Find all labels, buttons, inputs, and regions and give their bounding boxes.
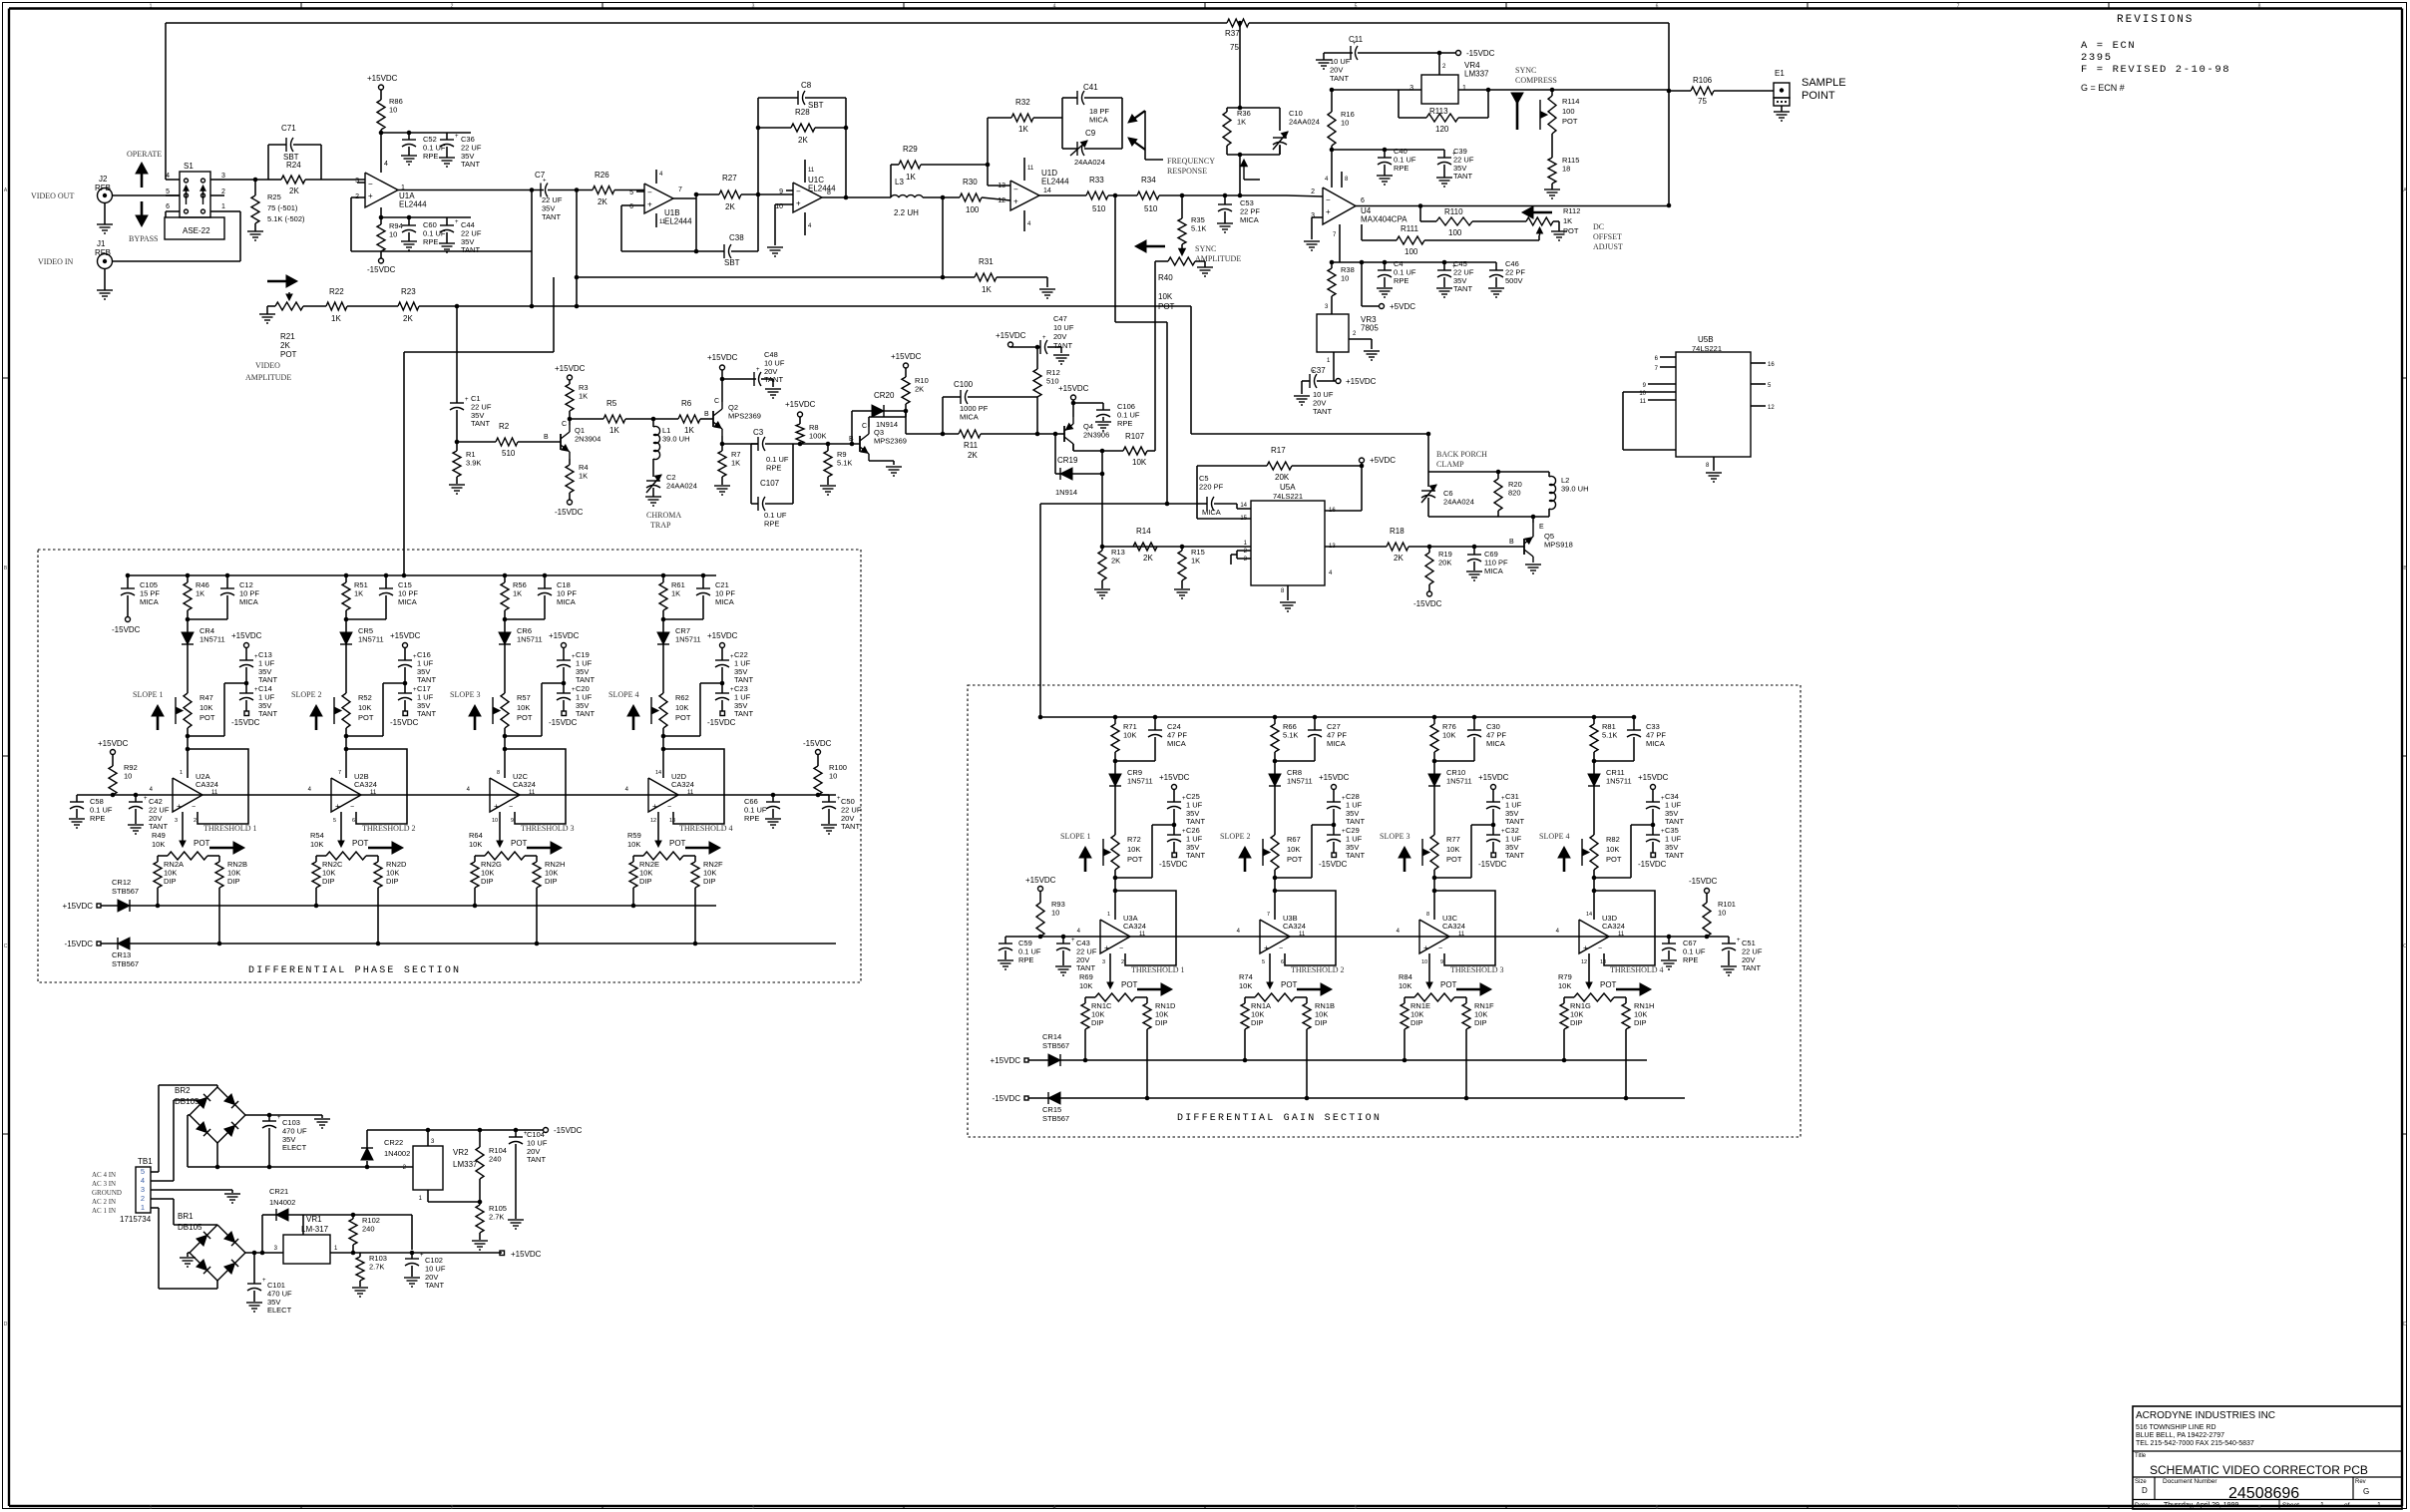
svg-text:100: 100 [1405, 247, 1418, 256]
pot R112 DC OFFSET ADJUST [1526, 217, 1553, 225]
svg-text:+15VDC: +15VDC [1025, 876, 1056, 885]
resistor R15 [1181, 547, 1183, 551]
arrow [1563, 849, 1566, 872]
wire [1433, 870, 1435, 878]
svg-text:DIP: DIP [1251, 1018, 1264, 1027]
svg-text:+15VDC: +15VDC [1478, 773, 1509, 782]
svg-text:2K: 2K [403, 314, 413, 323]
capacitor C5 [1197, 503, 1207, 505]
svg-text:1N5711: 1N5711 [1127, 776, 1153, 785]
svg-text:-15VDC: -15VDC [555, 508, 584, 517]
wire [1713, 457, 1715, 471]
svg-text:-15VDC: -15VDC [993, 1094, 1021, 1103]
svg-text:R106: R106 [1693, 76, 1713, 85]
svg-text:-15VDC: -15VDC [554, 1126, 583, 1135]
svg-text:TANT: TANT [417, 709, 436, 718]
svg-text:2: 2 [451, 1505, 454, 1511]
wire [404, 351, 554, 353]
ground [259, 313, 275, 315]
wire [576, 190, 578, 307]
svg-text:6: 6 [352, 818, 355, 824]
wire [187, 728, 189, 736]
svg-text:7: 7 [1267, 912, 1270, 918]
svg-text:D: D [2142, 1486, 2148, 1495]
svg-text:C11: C11 [1349, 35, 1364, 44]
svg-text:14: 14 [1240, 503, 1247, 509]
svg-text:+: + [262, 1278, 266, 1284]
resistor R81 [1593, 717, 1595, 724]
wire [151, 1207, 159, 1209]
svg-text:POT: POT [1562, 117, 1578, 126]
svg-text:C47: C47 [1053, 314, 1067, 323]
capacitor C42 [134, 793, 139, 798]
capacitor C31 [1492, 789, 1494, 802]
op-amp U2A [173, 778, 202, 812]
svg-text:5: 5 [629, 189, 633, 196]
svg-text:+: + [652, 802, 657, 811]
capacitor C28 [1333, 789, 1335, 802]
wire [1072, 473, 1102, 475]
svg-text:R62: R62 [675, 693, 689, 702]
capacitor C32 [1491, 823, 1496, 828]
svg-text:CR14: CR14 [1042, 1032, 1061, 1041]
capacitor C101 [253, 1253, 255, 1284]
wire [1114, 195, 1116, 322]
svg-text:R22: R22 [329, 287, 344, 296]
ground [1039, 288, 1055, 290]
wire [130, 943, 836, 945]
wire [1428, 471, 1549, 473]
svg-text:STB567: STB567 [112, 959, 139, 968]
-15VDC terminal [562, 711, 567, 716]
svg-text:Size: Size [2135, 1479, 2147, 1485]
transistor Q3 [859, 436, 861, 452]
svg-text:TANT: TANT [734, 709, 753, 718]
-15VDC terminal [1705, 889, 1710, 894]
svg-text:R47: R47 [200, 693, 213, 702]
ground [104, 269, 106, 291]
svg-text:R27: R27 [722, 174, 737, 183]
svg-text:R69: R69 [1079, 972, 1093, 981]
capacitor C69 [1473, 547, 1475, 555]
svg-text:4: 4 [1053, 4, 1056, 10]
wire [1159, 194, 1287, 196]
svg-text:1N4002: 1N4002 [384, 1149, 410, 1158]
svg-text:POT: POT [1121, 980, 1138, 989]
diode CR15 [1028, 1097, 1048, 1099]
svg-text:D: D [2403, 1322, 2407, 1327]
svg-text:DC: DC [1593, 222, 1604, 231]
arrow [1516, 102, 1519, 130]
svg-text:TANT: TANT [1665, 851, 1684, 860]
svg-text:E1: E1 [1775, 69, 1785, 78]
svg-text:510: 510 [502, 449, 516, 458]
svg-text:510: 510 [1144, 204, 1158, 213]
svg-text:FREQUENCY: FREQUENCY [1167, 157, 1215, 166]
terminal block TB1 [136, 1167, 151, 1213]
svg-text:5: 5 [166, 189, 170, 195]
svg-text:−: − [509, 804, 513, 811]
diode CR21 [261, 1215, 263, 1253]
svg-text:BR1: BR1 [178, 1212, 194, 1221]
svg-text:1K: 1K [982, 285, 992, 294]
op-amp U1A [365, 173, 398, 207]
pot R47 [184, 693, 192, 728]
svg-text:5: 5 [141, 1167, 145, 1176]
capacitor C13 [245, 647, 247, 660]
svg-text:POT: POT [1606, 855, 1622, 864]
wire [224, 179, 268, 181]
wire [456, 306, 458, 399]
capacitor C24 [1153, 715, 1158, 720]
svg-text:RPE: RPE [766, 463, 781, 472]
svg-text:−: − [796, 188, 801, 196]
wire [1356, 205, 1669, 207]
svg-text:R67: R67 [1287, 835, 1301, 844]
svg-text:+15VDC: +15VDC [63, 902, 94, 911]
svg-text:G = ECN #: G = ECN # [2081, 83, 2125, 93]
ground [439, 157, 455, 159]
svg-text:THRESHOLD 1: THRESHOLD 1 [203, 824, 257, 833]
svg-text:SLOPE 3: SLOPE 3 [450, 690, 480, 699]
svg-text:+15VDC: +15VDC [996, 331, 1026, 340]
wire [1333, 352, 1335, 381]
resistor RN2E [633, 855, 643, 857]
capacitor C46 [1495, 262, 1497, 270]
wire [905, 411, 907, 434]
wire [1331, 296, 1333, 314]
resistor RN1A [1245, 996, 1255, 998]
resistor R94 [380, 217, 382, 224]
ground [820, 485, 836, 487]
svg-text:11: 11 [1640, 399, 1647, 405]
svg-text:−: − [667, 804, 671, 811]
svg-text:2395: 2395 [2081, 52, 2113, 64]
wire [548, 189, 593, 191]
svg-text:CA324: CA324 [1123, 922, 1146, 931]
op-amp U1D [1010, 181, 1039, 210]
ground [1055, 965, 1071, 967]
svg-text:R112: R112 [1563, 206, 1580, 215]
svg-text:10K: 10K [310, 840, 323, 849]
svg-text:6: 6 [1656, 4, 1659, 10]
svg-text:100: 100 [1562, 107, 1575, 116]
resistor R22 [326, 302, 347, 310]
svg-text:2K: 2K [598, 197, 607, 206]
svg-text:10K: 10K [517, 703, 530, 712]
capacitor C18 [543, 573, 548, 578]
svg-text:R29: R29 [903, 145, 918, 154]
capacitor C1 [450, 402, 464, 404]
wire [1060, 1059, 1647, 1061]
svg-text:7: 7 [678, 187, 682, 193]
wire [1072, 403, 1074, 417]
inductor L3 [891, 195, 923, 197]
svg-text:E: E [1539, 524, 1544, 531]
varactor C2 [652, 459, 654, 477]
diode CR10 [1433, 761, 1435, 774]
svg-text:DIP: DIP [1474, 1018, 1487, 1027]
svg-text:TEL 215-542-7000 FAX 215-540-5: TEL 215-542-7000 FAX 215-540-5837 [2136, 1440, 2254, 1447]
svg-text:CA324: CA324 [1442, 922, 1465, 931]
pot R114 [1551, 90, 1553, 96]
arrow [1084, 849, 1087, 872]
wire [662, 736, 664, 778]
svg-text:10K: 10K [1442, 730, 1455, 739]
wire [1005, 936, 1729, 938]
inductor L2 [1548, 472, 1550, 477]
svg-text:U5B: U5B [1698, 335, 1714, 344]
resistor R66 [1274, 717, 1276, 724]
capacitor C36 [446, 133, 448, 140]
wire [1428, 516, 1549, 518]
svg-text:1: 1 [1462, 85, 1466, 92]
wire [621, 204, 636, 206]
-15VDC terminal [720, 711, 725, 716]
resistor R113 [1398, 90, 1400, 118]
svg-text:B: B [704, 411, 709, 418]
pot R67 [1271, 835, 1279, 870]
svg-text:-15VDC: -15VDC [367, 265, 396, 274]
resistor R9 [827, 444, 829, 451]
svg-text:1K: 1K [1191, 556, 1200, 565]
svg-text:CR12: CR12 [112, 878, 131, 887]
svg-text:EL2444: EL2444 [399, 199, 427, 208]
wire [1102, 546, 1251, 548]
svg-text:-15VDC: -15VDC [231, 718, 260, 727]
section box [38, 550, 861, 982]
svg-text:R30: R30 [963, 178, 978, 187]
wire [741, 193, 793, 195]
svg-text:75 (-501): 75 (-501) [267, 203, 298, 212]
wire [1332, 149, 1444, 151]
svg-text:10K: 10K [1446, 845, 1459, 854]
svg-text:DIP: DIP [1091, 1018, 1104, 1027]
title block [2133, 1406, 2402, 1509]
svg-text:CR22: CR22 [384, 1138, 403, 1147]
resistor R56 [504, 575, 506, 582]
resistor R8 [799, 417, 801, 424]
svg-text:+15VDC: +15VDC [98, 739, 129, 748]
svg-text:10: 10 [829, 771, 837, 780]
wire [694, 888, 696, 944]
svg-text:3: 3 [752, 4, 755, 10]
svg-text:R32: R32 [1015, 98, 1030, 107]
svg-text:1K: 1K [579, 391, 588, 400]
wire [1593, 870, 1595, 878]
wire [351, 196, 357, 198]
wire [1668, 23, 1670, 205]
regulator VR4 LM337 [1421, 75, 1458, 104]
svg-text:1K: 1K [1018, 125, 1028, 134]
svg-text:2.7K: 2.7K [489, 1212, 504, 1221]
svg-text:AC 3 IN: AC 3 IN [92, 1180, 116, 1188]
wire [367, 1129, 544, 1131]
resistor R20 [1497, 472, 1499, 479]
-15VDC terminal [544, 1128, 549, 1133]
capacitor C103 [268, 1115, 270, 1121]
svg-text:−: − [1013, 186, 1018, 194]
capacitor C52 [407, 131, 412, 136]
wire [245, 1252, 283, 1254]
resistor R28 [758, 127, 791, 129]
arrow [474, 707, 477, 730]
wire [1312, 216, 1323, 218]
wire [380, 207, 382, 217]
diode CR8 [1274, 761, 1276, 774]
svg-text:1: 1 [2377, 1502, 2381, 1509]
wire [1039, 194, 1086, 196]
wire [1040, 716, 1632, 718]
svg-text:C9: C9 [1085, 129, 1096, 138]
threshold pot R59 [643, 852, 683, 860]
diode CR22 [366, 1161, 368, 1167]
svg-text:11: 11 [808, 168, 815, 174]
capacitor C26 [1172, 823, 1177, 828]
svg-text:+15VDC: +15VDC [511, 1250, 542, 1259]
svg-text:TANT: TANT [1742, 963, 1761, 972]
svg-text:8: 8 [497, 770, 500, 776]
svg-text:+15VDC: +15VDC [707, 631, 738, 640]
svg-text:TANT: TANT [425, 1281, 444, 1290]
svg-text:CR19: CR19 [1057, 456, 1078, 465]
svg-text:SLOPE 2: SLOPE 2 [1220, 832, 1250, 841]
svg-text:R21: R21 [280, 332, 295, 341]
op-amp U1C [793, 183, 822, 212]
resistor RN1F [1454, 996, 1466, 998]
regulator VR3 7805 [1317, 314, 1349, 352]
capacitor C20 [562, 681, 567, 686]
capacitor C53 [1224, 195, 1226, 204]
svg-text:C100: C100 [954, 380, 974, 389]
svg-text:THRESHOLD 3: THRESHOLD 3 [1450, 965, 1504, 974]
svg-text:3.9K: 3.9K [466, 458, 481, 467]
capacitor C23 [720, 681, 725, 686]
+15VDC terminal [720, 365, 725, 370]
arrow [157, 707, 160, 730]
svg-text:TANT: TANT [1505, 817, 1524, 826]
svg-text:10 UF: 10 UF [1053, 323, 1074, 332]
svg-text:-15VDC: -15VDC [1413, 599, 1442, 608]
-15VDC terminal [1332, 853, 1337, 858]
svg-text:POT: POT [352, 839, 369, 848]
+15VDC terminal [379, 85, 384, 90]
svg-text:RPE: RPE [1394, 276, 1408, 285]
svg-text:THRESHOLD 2: THRESHOLD 2 [362, 824, 416, 833]
-15VDC terminal [1427, 591, 1432, 596]
svg-text:RPE: RPE [1394, 164, 1408, 173]
svg-text:1N5711: 1N5711 [358, 634, 384, 643]
wire [216, 1143, 218, 1167]
resistor R61 [662, 575, 664, 582]
svg-text:RPE: RPE [764, 519, 779, 528]
+15VDC terminal [111, 750, 116, 755]
svg-text:+: + [465, 397, 469, 403]
wire [757, 98, 759, 194]
svg-text:1K: 1K [513, 588, 522, 597]
svg-text:+15VDC: +15VDC [555, 364, 586, 373]
svg-text:10: 10 [492, 818, 498, 824]
svg-text:-15VDC: -15VDC [1466, 49, 1495, 58]
svg-text:-15VDC: -15VDC [549, 718, 578, 727]
svg-text:2: 2 [221, 189, 225, 195]
wire [1275, 760, 1315, 762]
svg-text:B: B [544, 434, 549, 441]
svg-text:MICA: MICA [1240, 215, 1259, 224]
svg-text:J2: J2 [99, 175, 108, 184]
inductor L1 [652, 419, 654, 427]
svg-text:2K: 2K [915, 384, 924, 393]
capacitor C3 / C107 pair [757, 437, 759, 451]
svg-text:1715734: 1715734 [120, 1215, 152, 1224]
svg-text:2K: 2K [1143, 554, 1153, 563]
feedback wire [1115, 891, 1176, 965]
svg-text:2.2 UH: 2.2 UH [894, 208, 919, 217]
svg-text:6: 6 [1656, 1505, 1659, 1511]
+15VDC terminal [1010, 346, 1037, 348]
wire [1114, 870, 1116, 878]
wire [1146, 1029, 1148, 1098]
svg-text:THRESHOLD 2: THRESHOLD 2 [1291, 965, 1345, 974]
threshold pot R74 [1255, 993, 1295, 1001]
svg-text:1K: 1K [354, 588, 363, 597]
svg-text:10K: 10K [1399, 981, 1411, 990]
ground [765, 818, 781, 820]
ground [104, 203, 106, 225]
svg-text:10: 10 [389, 229, 397, 238]
svg-text:74LS221: 74LS221 [1692, 344, 1722, 353]
wire [1399, 89, 1421, 91]
wire [1472, 220, 1526, 222]
resistor R29 [890, 165, 892, 197]
ground [449, 484, 465, 486]
svg-text:+15VDC: +15VDC [1058, 384, 1089, 393]
resistor RN1G [1564, 996, 1574, 998]
svg-text:−: − [1119, 945, 1123, 952]
wire [1115, 760, 1155, 762]
svg-text:THRESHOLD 4: THRESHOLD 4 [679, 824, 733, 833]
svg-text:1N5711: 1N5711 [675, 634, 701, 643]
svg-text:1K: 1K [196, 588, 204, 597]
svg-text:1K: 1K [1237, 117, 1246, 126]
svg-text:10K: 10K [1123, 730, 1136, 739]
svg-text:TRAP: TRAP [650, 521, 671, 530]
svg-text:R40: R40 [1158, 273, 1173, 282]
svg-text:POT: POT [1158, 302, 1175, 311]
svg-text:C8: C8 [801, 81, 812, 90]
wire [923, 196, 960, 198]
resistor R107 [1123, 447, 1147, 455]
op-amp U3D [1579, 920, 1609, 953]
svg-text:R82: R82 [1606, 835, 1620, 844]
-15VDC terminal [379, 258, 384, 263]
resistor RN2F [683, 855, 695, 857]
svg-text:RFB: RFB [95, 184, 111, 192]
wire [1332, 89, 1399, 91]
wire [218, 888, 220, 944]
svg-text:2K: 2K [1111, 556, 1120, 565]
svg-text:SLOPE 2: SLOPE 2 [291, 690, 321, 699]
transistor Q2 [712, 411, 714, 427]
svg-text:2K: 2K [968, 451, 978, 460]
svg-text:R11: R11 [964, 441, 979, 450]
svg-text:5.1K: 5.1K [1283, 730, 1298, 739]
capacitor C60 [407, 215, 412, 220]
svg-text:DIP: DIP [1410, 1018, 1423, 1027]
svg-text:C107: C107 [760, 479, 780, 488]
capacitor C37 [1317, 380, 1334, 382]
resistor R23 [398, 302, 419, 310]
